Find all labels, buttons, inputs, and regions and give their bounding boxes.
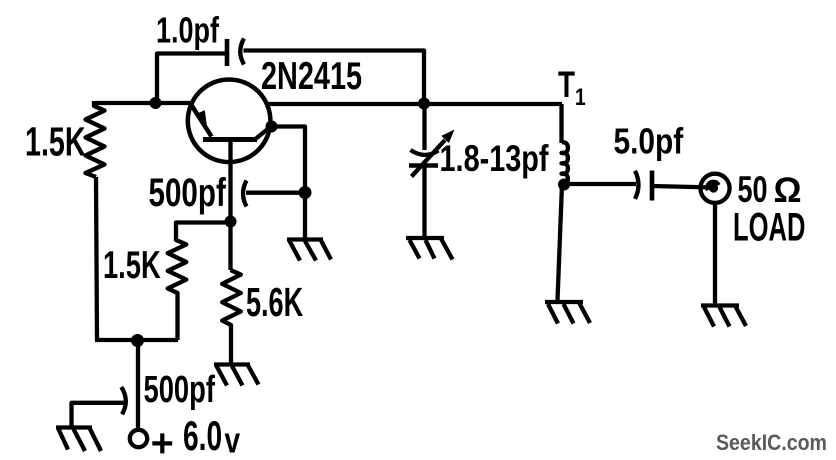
capacitor C5 straight plate — [650, 171, 655, 201]
svg-text:1: 1 — [575, 83, 586, 111]
ground under T1 — [545, 300, 583, 304]
svg-text:500pf: 500pf — [144, 369, 216, 411]
wire main rail right segment — [267, 102, 562, 106]
wire C3 to ground — [72, 403, 126, 427]
svg-text:SeekIC.com: SeekIC.com — [716, 431, 827, 456]
node junction dot right column — [299, 186, 312, 199]
node base junction dot — [225, 216, 237, 228]
svg-text:5.6K: 5.6K — [246, 281, 303, 326]
svg-text:1.5K: 1.5K — [103, 244, 161, 287]
wire coil tap to C5 — [564, 182, 636, 186]
svg-text:2N2415: 2N2415 — [261, 55, 362, 98]
wire bottom rail — [95, 338, 178, 342]
svg-text:1.5K: 1.5K — [25, 120, 86, 165]
transistor base lead — [228, 140, 232, 271]
wire C4 to ground — [422, 166, 426, 237]
wire C2 to right column — [246, 191, 305, 195]
svg-text:50: 50 — [738, 169, 768, 210]
node collector junction dot — [266, 121, 278, 133]
wire top horizontal to right riser — [244, 51, 425, 104]
capacitor C2 500pf curved plate — [243, 181, 247, 207]
transistor emitter diagonal — [191, 105, 212, 137]
wire coil to ground — [558, 185, 563, 301]
resistor R1 1.5K — [86, 101, 105, 177]
capacitor C3 500pf curved plate — [121, 387, 126, 414]
wire right column to ground — [303, 193, 307, 240]
transistor collector diagonal — [256, 126, 272, 139]
wire top-left riser — [157, 54, 226, 105]
ground under C4 — [406, 236, 444, 240]
transistor Q1 2N2415 circle — [188, 80, 271, 163]
node coil tap dot — [558, 179, 570, 191]
svg-text:500pf: 500pf — [149, 171, 227, 215]
capacitor C1 1.0pf right curved plate — [240, 39, 244, 65]
wire left column down — [96, 177, 97, 340]
resistor R3 5.6K — [222, 270, 241, 364]
transistor emitter arrowhead — [195, 110, 208, 130]
wire connector to ground — [713, 203, 717, 304]
svg-text:1.0pf: 1.0pf — [156, 10, 219, 51]
svg-text:1.8-13pf: 1.8-13pf — [440, 139, 550, 180]
node junction dot right rail — [418, 98, 430, 110]
wire rail corner down to coil — [559, 104, 563, 143]
capacitor C1 1.0pf left plate — [225, 39, 230, 66]
node junction dot left rail — [150, 97, 162, 109]
wire main rail left segment — [94, 101, 191, 105]
variable capacitor C4 arrow — [412, 140, 446, 177]
svg-text:5.0pf: 5.0pf — [614, 122, 685, 162]
ground under load — [701, 303, 739, 307]
resistor R2 1.5K — [168, 223, 225, 341]
label +6.0v plus sign — [152, 433, 172, 453]
capacitor C5 5.0pf curved plate — [635, 171, 639, 199]
variable capacitor C4 top curved plate — [411, 150, 439, 155]
variable capacitor C4 lead — [422, 104, 426, 151]
terminal +6.0v circle — [130, 430, 147, 447]
ground bottom left — [56, 425, 92, 429]
ground under collector column — [287, 237, 323, 241]
wire feed line down from bottom rail — [136, 340, 140, 429]
connector J1 outer circle — [700, 174, 729, 203]
connector J1 hook — [707, 182, 719, 191]
svg-text:Ω: Ω — [774, 171, 802, 210]
svg-text:6.0: 6.0 — [183, 412, 222, 459]
variable capacitor C4 bottom plate — [409, 163, 438, 168]
wire collector to right column — [272, 127, 306, 194]
ground under 5.6K — [214, 362, 250, 366]
inductor T1 coil — [562, 142, 568, 184]
svg-text:LOAD: LOAD — [733, 206, 806, 250]
svg-text:v: v — [225, 420, 241, 460]
transistor base bar — [203, 137, 257, 142]
svg-text:T: T — [558, 63, 575, 105]
node junction dot bottom rail — [131, 334, 144, 347]
wire C5 to connector — [652, 186, 714, 188]
connector J1 center dot — [709, 183, 718, 192]
